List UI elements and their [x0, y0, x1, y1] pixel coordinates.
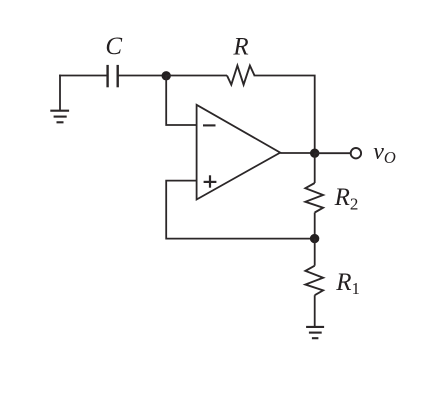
- wire: node B down to resistor R2: [314, 153, 316, 183]
- svg-text:vO: vO: [373, 139, 396, 167]
- output terminal open circle: [351, 148, 361, 158]
- ground (left): [50, 111, 69, 123]
- wire: node A to resistor R: [166, 75, 227, 77]
- ground (right): [306, 327, 324, 338]
- svg-text:R1: R1: [335, 269, 360, 298]
- wire: resistor R to top-right corner, down to output node: [255, 76, 315, 154]
- wire: op-amp output to node B: [280, 152, 315, 154]
- wire: resistor R1 down to ground: [314, 295, 316, 326]
- wire: node B to output terminal: [315, 152, 351, 154]
- wire: node A down to inverting input of op-amp: [166, 76, 196, 125]
- resistor R1: [305, 266, 323, 296]
- resistor R: [227, 66, 255, 85]
- op-amp inverting pin minus symbol: [203, 124, 216, 126]
- wire: top-left horizontal from ground lead to capacitor: [59, 75, 107, 77]
- svg-text:R2: R2: [334, 184, 359, 213]
- resistor R2: [305, 183, 323, 213]
- op-amp non-inverting pin plus symbol: [204, 175, 217, 187]
- op-amp U1 triangle: [197, 105, 281, 200]
- wire: node C down to resistor R1: [314, 239, 316, 266]
- node B output junction dot: [310, 149, 319, 158]
- wire: capacitor to node A: [118, 75, 167, 77]
- svg-text:C: C: [105, 33, 122, 60]
- node A junction dot: [162, 71, 171, 80]
- svg-text:R: R: [232, 34, 248, 61]
- wire: left vertical lead down to ground: [59, 76, 61, 111]
- node C junction dot: [310, 234, 319, 243]
- capacitor C: [108, 65, 118, 87]
- wire: resistor R2 to node C: [314, 213, 316, 239]
- wire: feedback from node C along bottom and up to non-inverting input: [166, 181, 314, 239]
